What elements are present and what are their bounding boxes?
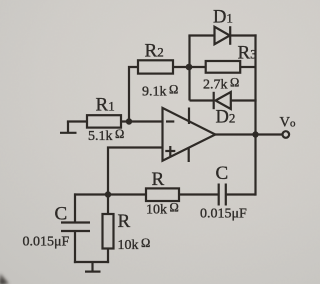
svg-text:0.015μF: 0.015μF xyxy=(200,207,247,222)
svg-text:Vo: Vo xyxy=(280,115,296,131)
svg-text:R: R xyxy=(152,169,165,190)
wire R1 to op-amp inverting input xyxy=(121,120,163,122)
wire non-inverting input xyxy=(108,148,163,196)
wire junction up to R2 xyxy=(129,67,138,122)
svg-text:R3: R3 xyxy=(238,43,257,64)
svg-text:C: C xyxy=(55,204,68,225)
wire down-left branch to parallel C xyxy=(74,193,76,222)
wire op-amp output to Vo node xyxy=(214,133,256,135)
wire bottom joining C and R xyxy=(74,261,109,263)
ground (left of R1) xyxy=(60,122,77,133)
svg-text:R1: R1 xyxy=(96,95,115,116)
wire junction down to parallel R xyxy=(107,195,109,215)
capacitor C parallel xyxy=(61,223,90,232)
node RC junction xyxy=(105,191,111,197)
wire right vertical of diode network down to output xyxy=(254,34,256,195)
page corner shadow bottom-left xyxy=(0,274,9,284)
resistor R parallel xyxy=(103,214,114,249)
wire parallel R bottom xyxy=(107,249,109,264)
svg-text:R2: R2 xyxy=(145,41,164,62)
output terminal Vo xyxy=(283,131,290,138)
wire ground to R1 xyxy=(67,120,87,122)
resistor R3 xyxy=(206,61,241,73)
capacitor C series xyxy=(219,184,226,206)
wire top branch right of D1 xyxy=(230,34,256,36)
wire R3 branch left xyxy=(190,66,206,68)
wire bottom branch right of D2 xyxy=(231,99,257,101)
op-amp U1 xyxy=(163,108,216,161)
node feedback-left junction xyxy=(186,64,193,71)
svg-text:D2: D2 xyxy=(216,108,236,128)
wire left vertical of diode network xyxy=(188,36,190,101)
wire parallel C bottom xyxy=(74,231,76,263)
power pin bottom xyxy=(188,148,190,162)
svg-text:C: C xyxy=(216,163,229,184)
wire junction to series R xyxy=(74,193,146,195)
node output junction xyxy=(252,131,258,137)
resistor R series xyxy=(146,188,179,201)
diode D2 xyxy=(214,92,231,109)
svg-text:D1: D1 xyxy=(213,8,233,28)
diode D1 xyxy=(215,26,231,45)
wire top branch left of D1 xyxy=(188,34,215,36)
wire R2 to diode network xyxy=(173,66,190,68)
wire R3 branch right xyxy=(240,66,255,68)
wire to output terminal xyxy=(256,133,283,135)
node inverting-input junction xyxy=(126,118,132,124)
resistor R2 xyxy=(138,60,173,73)
power pin top xyxy=(188,108,190,125)
svg-text:R: R xyxy=(118,211,131,232)
ground (bottom) xyxy=(85,262,101,272)
resistor R1 xyxy=(87,115,121,127)
svg-text:0.015μF: 0.015μF xyxy=(23,235,70,250)
wire C series to right vertical xyxy=(226,193,256,195)
wire bottom branch left of D2 xyxy=(190,99,214,101)
wire R to C series xyxy=(179,193,219,195)
